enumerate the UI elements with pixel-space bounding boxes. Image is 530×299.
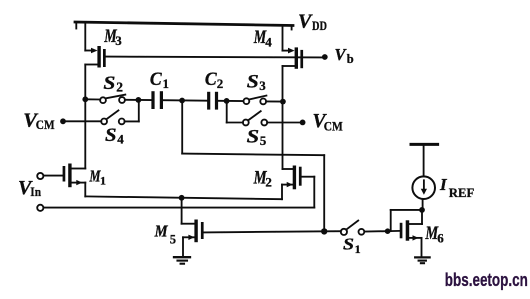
wire S4 right terminal up to main line	[125, 100, 139, 122]
S3 label	[247, 71, 266, 93]
svg-text:S: S	[247, 71, 259, 92]
svg-text:C: C	[150, 69, 162, 90]
S1 label	[343, 234, 361, 256]
VDD rail	[75, 22, 293, 30]
M2 label	[253, 168, 272, 190]
VCM left label	[23, 109, 55, 132]
svg-text:6: 6	[437, 231, 444, 246]
switch S2	[100, 95, 125, 104]
IREF label	[439, 175, 475, 200]
ground under M5	[174, 257, 190, 264]
svg-text:M: M	[154, 222, 169, 241]
node VCM left	[60, 118, 66, 124]
wire CMFB: C1-C2 midpoint down, right, down to S1 line	[182, 101, 324, 232]
svg-text:DD: DD	[312, 19, 327, 33]
svg-text:S: S	[105, 125, 117, 146]
wire S1 to M6 gate	[364, 230, 399, 233]
C1 label	[150, 69, 169, 91]
svg-text:4: 4	[265, 35, 272, 50]
switch S3	[244, 96, 267, 105]
switch S5	[243, 111, 267, 125]
wire M6 diode connection	[391, 210, 422, 231]
ground under M6	[415, 257, 429, 263]
svg-text:b: b	[347, 52, 354, 66]
VCM right label	[313, 111, 343, 134]
terminal Vin-	[37, 205, 43, 211]
node Vb	[322, 54, 328, 60]
Vb label	[335, 45, 354, 66]
svg-text:S: S	[247, 126, 260, 147]
svg-text:REF: REF	[449, 186, 475, 200]
node right output tap	[280, 99, 286, 105]
svg-text:1: 1	[163, 76, 170, 91]
svg-text:CM: CM	[36, 118, 55, 132]
wire S5 right terminal to VCM right	[267, 122, 300, 124]
wire Vin- to M2 gate	[44, 177, 315, 208]
node C1-C2 midpoint	[179, 98, 185, 104]
transistor M2	[282, 166, 314, 200]
wire C2-right node down to S5	[227, 101, 243, 123]
transistor M5	[182, 198, 204, 256]
node M6 drain	[419, 207, 425, 213]
svg-text:1: 1	[100, 173, 106, 187]
transistor M4	[283, 25, 304, 69]
node tail / M5 drain junction	[179, 195, 185, 201]
terminal Vin+	[37, 173, 43, 179]
node CMFB junction on S1 line	[321, 228, 327, 234]
M6 label	[425, 223, 445, 246]
S5 label	[247, 126, 267, 148]
wire tail line	[85, 196, 282, 199]
capacitor C1	[151, 91, 163, 109]
svg-text:2: 2	[116, 80, 123, 95]
svg-text:CM: CM	[324, 120, 343, 134]
svg-text:4: 4	[117, 132, 124, 147]
transistor M3	[85, 22, 105, 67]
M4 label	[253, 27, 272, 50]
VDD label	[298, 11, 327, 33]
M1 label	[89, 167, 106, 188]
svg-text:3: 3	[115, 33, 122, 48]
wire VCM left to S4	[63, 120, 101, 122]
S4 label	[105, 125, 124, 146]
S2 label	[103, 73, 123, 94]
svg-text:5: 5	[170, 233, 176, 247]
M5 label	[154, 222, 176, 247]
svg-text:2: 2	[265, 175, 272, 190]
wire M5 gate line to S1 and M6	[204, 231, 341, 232]
capacitor C2	[207, 92, 218, 110]
transistor M6	[400, 210, 422, 256]
node C2 right plate junction	[224, 98, 230, 104]
svg-text:bbs.eetop.cn: bbs.eetop.cn	[445, 270, 528, 290]
wire right output vertical (M4 drain to M2 drain)	[282, 66, 284, 169]
node left output tap	[82, 96, 88, 102]
svg-text:C: C	[205, 69, 217, 90]
svg-text:S: S	[343, 234, 354, 253]
node VCM right	[300, 120, 306, 126]
svg-text:3: 3	[259, 78, 266, 93]
wire left output vertical (M3 drain to M1 drain)	[84, 65, 86, 169]
M3 label	[103, 26, 122, 48]
svg-text:S: S	[103, 73, 115, 94]
svg-text:1: 1	[355, 242, 361, 256]
svg-text:In: In	[30, 185, 41, 199]
Vin label	[18, 177, 41, 199]
transistor M1	[44, 164, 86, 197]
svg-text:V: V	[298, 11, 313, 33]
current source IREF	[412, 146, 435, 210]
C2 label	[205, 69, 223, 91]
switch S4	[101, 110, 124, 124]
supply bar above IREF	[411, 143, 438, 146]
switch S1	[341, 221, 365, 235]
node M6 gate junction	[385, 228, 391, 234]
svg-text:5: 5	[260, 133, 267, 148]
svg-text:2: 2	[217, 76, 224, 91]
wire M3 gate to M4 gate to Vb	[106, 56, 322, 59]
wire main switch line segments	[85, 99, 282, 101]
node C1 left plate junction	[136, 97, 142, 103]
